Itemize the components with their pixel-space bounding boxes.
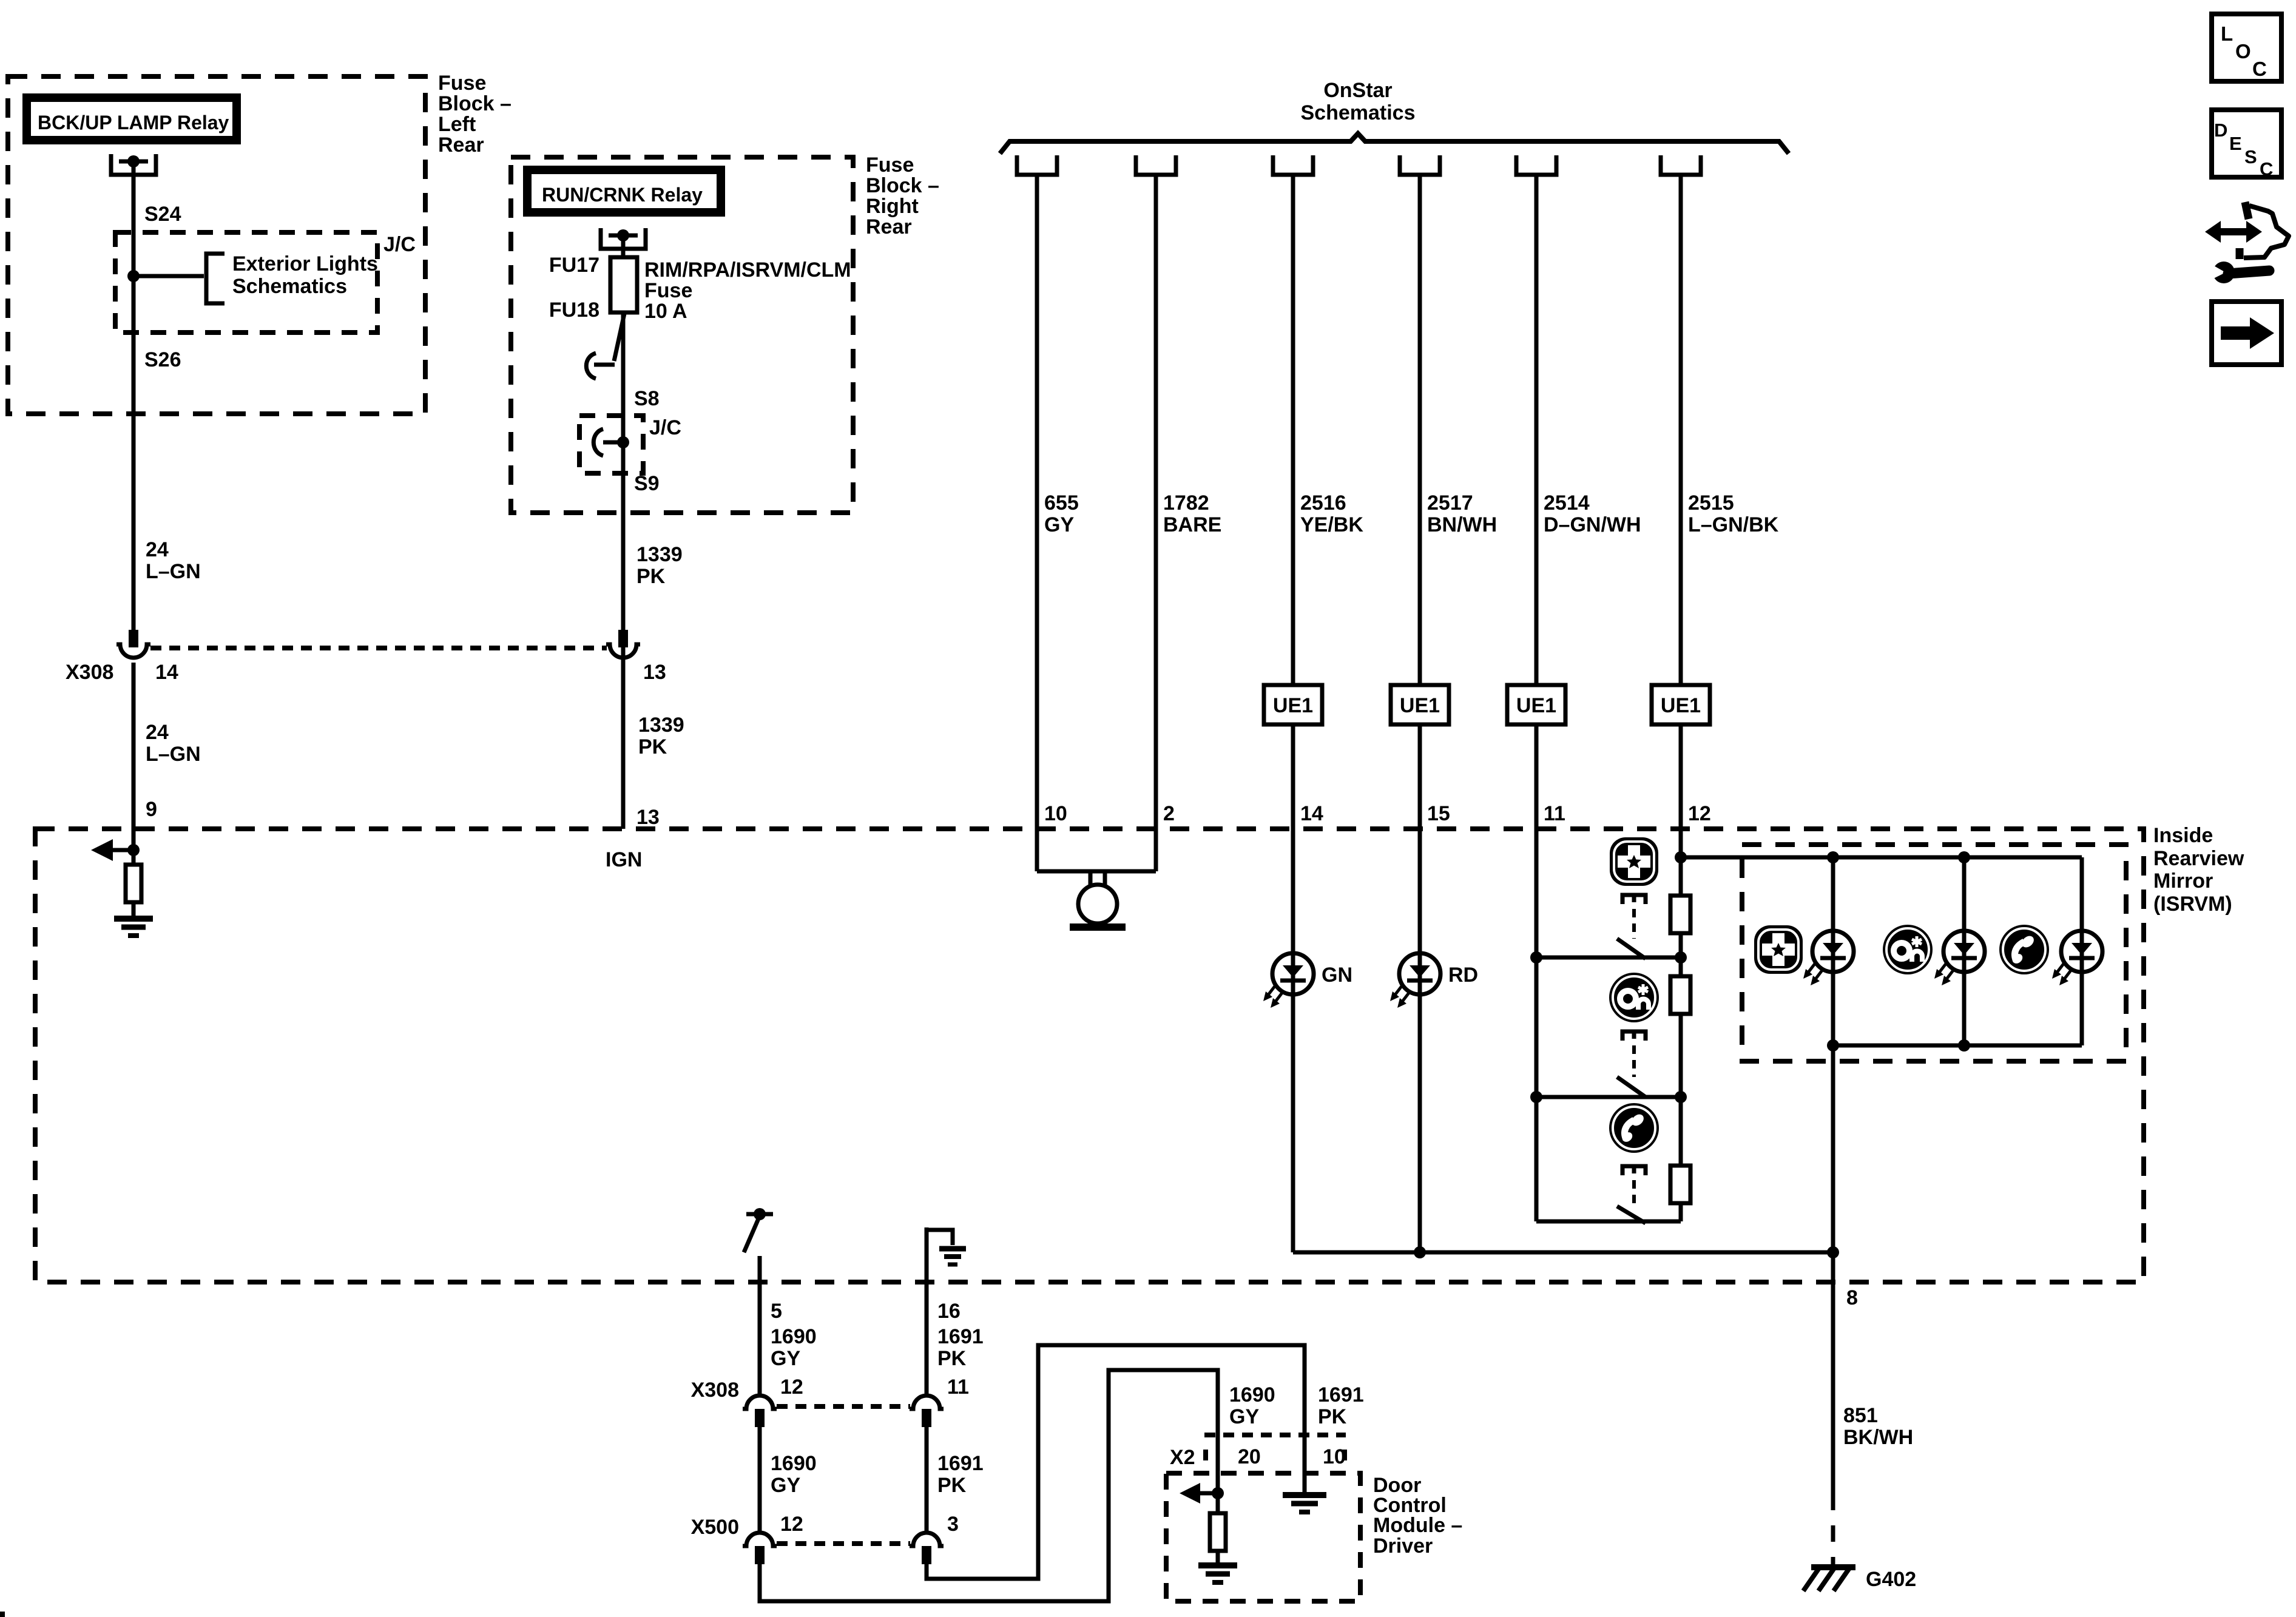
- svg-text:L–GN/BK: L–GN/BK: [1688, 513, 1779, 536]
- svg-text:10 A: 10 A: [644, 300, 687, 323]
- svg-text:10: 10: [1044, 802, 1067, 825]
- svg-text:YE/BK: YE/BK: [1300, 513, 1363, 536]
- svg-text:PK: PK: [636, 565, 666, 588]
- svg-text:1690: 1690: [771, 1452, 817, 1475]
- svg-text:1691: 1691: [1318, 1383, 1364, 1406]
- svg-text:S9: S9: [634, 472, 660, 495]
- svg-text:Mirror: Mirror: [2153, 869, 2213, 893]
- svg-text:PK: PK: [638, 735, 667, 758]
- svg-text:GY: GY: [771, 1347, 800, 1370]
- svg-text:UE1: UE1: [1661, 694, 1701, 717]
- svg-text:S26: S26: [144, 348, 181, 371]
- svg-text:GY: GY: [771, 1474, 800, 1497]
- svg-text:1782: 1782: [1163, 491, 1209, 515]
- svg-text:9: 9: [146, 798, 157, 821]
- svg-text:13: 13: [643, 661, 666, 684]
- svg-text:14: 14: [155, 661, 178, 684]
- svg-text:Schematics: Schematics: [1301, 101, 1416, 124]
- svg-text:1339: 1339: [638, 714, 684, 737]
- svg-text:11: 11: [947, 1376, 969, 1399]
- svg-text:J/C: J/C: [383, 233, 416, 256]
- svg-text:FU18: FU18: [549, 299, 599, 322]
- svg-text:GY: GY: [1044, 513, 1074, 536]
- svg-text:GN: GN: [1322, 964, 1352, 987]
- svg-text:1691: 1691: [937, 1452, 984, 1475]
- svg-text:Fuse: Fuse: [866, 154, 914, 177]
- svg-text:RUN/CRNK Relay: RUN/CRNK Relay: [542, 184, 703, 206]
- svg-text:2514: 2514: [1544, 491, 1590, 515]
- svg-text:2: 2: [1163, 802, 1175, 825]
- svg-text:Module –: Module –: [1373, 1514, 1462, 1537]
- svg-text:3: 3: [947, 1513, 959, 1536]
- svg-text:PK: PK: [937, 1347, 967, 1370]
- svg-text:C: C: [2252, 58, 2267, 80]
- svg-text:L–GN: L–GN: [146, 560, 201, 583]
- svg-text:GY: GY: [1229, 1405, 1259, 1428]
- svg-text:PK: PK: [1318, 1405, 1347, 1428]
- svg-text:RIM/RPA/ISRVM/CLM: RIM/RPA/ISRVM/CLM: [644, 258, 851, 282]
- svg-text:15: 15: [1427, 802, 1450, 825]
- svg-text:E: E: [2229, 133, 2242, 154]
- svg-text:1339: 1339: [636, 543, 683, 566]
- svg-text:C: C: [2260, 158, 2273, 180]
- svg-text:FU17: FU17: [549, 254, 599, 277]
- svg-text:J/C: J/C: [649, 416, 681, 439]
- svg-text:24: 24: [146, 721, 169, 744]
- svg-text:5: 5: [771, 1300, 782, 1323]
- svg-text:Block –: Block –: [438, 92, 512, 115]
- svg-text:RD: RD: [1448, 964, 1478, 987]
- svg-text:S8: S8: [634, 387, 660, 410]
- svg-text:(ISRVM): (ISRVM): [2153, 893, 2232, 916]
- svg-text:1690: 1690: [1229, 1383, 1275, 1406]
- svg-text:Schematics: Schematics: [232, 275, 347, 298]
- svg-text:D: D: [2214, 120, 2227, 141]
- svg-text:X2: X2: [1170, 1446, 1195, 1469]
- svg-text:BK/WH: BK/WH: [1843, 1426, 1913, 1449]
- svg-text:Fuse: Fuse: [438, 72, 486, 95]
- svg-text:Fuse: Fuse: [644, 279, 692, 302]
- svg-text:Exterior Lights: Exterior Lights: [232, 252, 378, 275]
- svg-text:OnStar: OnStar: [1323, 79, 1392, 102]
- svg-text:24: 24: [146, 538, 169, 561]
- svg-text:8: 8: [1846, 1286, 1858, 1309]
- svg-text:11: 11: [1544, 802, 1565, 825]
- svg-text:2517: 2517: [1427, 491, 1473, 515]
- svg-text:Left: Left: [438, 113, 476, 136]
- svg-text:Driver: Driver: [1373, 1534, 1433, 1558]
- svg-text:Inside: Inside: [2153, 824, 2213, 847]
- svg-text:2515: 2515: [1688, 491, 1734, 515]
- svg-text:14: 14: [1300, 802, 1323, 825]
- svg-text:1690: 1690: [771, 1325, 817, 1348]
- svg-text:Rear: Rear: [438, 133, 484, 157]
- svg-text:Rear: Rear: [866, 215, 912, 238]
- svg-text:BARE: BARE: [1163, 513, 1221, 536]
- svg-text:BCK/UP LAMP Relay: BCK/UP LAMP Relay: [38, 112, 229, 133]
- svg-text:L–GN: L–GN: [146, 743, 201, 766]
- svg-text:X308: X308: [66, 661, 113, 684]
- svg-text:20: 20: [1238, 1445, 1261, 1468]
- svg-text:L: L: [2221, 22, 2233, 45]
- svg-text:S: S: [2244, 146, 2257, 167]
- svg-text:12: 12: [1688, 802, 1711, 825]
- svg-text:UE1: UE1: [1273, 694, 1313, 717]
- svg-text:2516: 2516: [1300, 491, 1346, 515]
- svg-text:Right: Right: [866, 195, 919, 218]
- svg-text:X500: X500: [691, 1516, 739, 1539]
- svg-text:12: 12: [780, 1376, 803, 1399]
- svg-text:G402: G402: [1866, 1568, 1916, 1591]
- svg-text:O: O: [2235, 40, 2251, 62]
- svg-text:16: 16: [937, 1300, 961, 1323]
- svg-text:1691: 1691: [937, 1325, 984, 1348]
- svg-text:13: 13: [636, 806, 660, 829]
- svg-text:Block –: Block –: [866, 174, 939, 197]
- svg-text:BN/WH: BN/WH: [1427, 513, 1497, 536]
- svg-text:X308: X308: [691, 1379, 739, 1402]
- svg-text:UE1: UE1: [1516, 694, 1556, 717]
- svg-text:S24: S24: [144, 203, 181, 226]
- svg-text:PK: PK: [937, 1474, 967, 1497]
- svg-text:851: 851: [1843, 1404, 1878, 1427]
- svg-text:10: 10: [1323, 1445, 1346, 1468]
- svg-text:IGN: IGN: [606, 848, 642, 871]
- svg-text:UE1: UE1: [1400, 694, 1440, 717]
- svg-text:D–GN/WH: D–GN/WH: [1544, 513, 1641, 536]
- svg-text:655: 655: [1044, 491, 1079, 515]
- svg-text:Rearview: Rearview: [2153, 847, 2244, 870]
- svg-text:12: 12: [780, 1513, 803, 1536]
